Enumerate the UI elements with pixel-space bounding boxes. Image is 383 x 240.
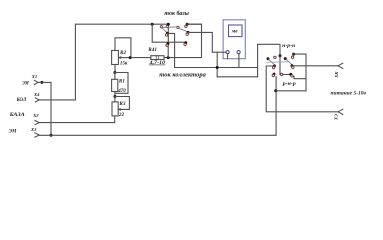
- wire lower run: [175, 67, 258, 69]
- wire X1 to riser: [38, 82, 51, 135]
- connector X4: [35, 98, 39, 102]
- contact B ring: [166, 25, 168, 27]
- node X1-rail junction: [50, 134, 53, 137]
- connector X1: [34, 80, 38, 84]
- svg-text:БАЗА: БАЗА: [8, 112, 25, 118]
- contact row2L dot: [166, 32, 169, 35]
- wire R1 top: [114, 73, 116, 80]
- npn ring2: [291, 56, 293, 58]
- contact A ring: [160, 26, 162, 28]
- npn ring1: [274, 56, 276, 58]
- switch arm C-E: [179, 28, 188, 31]
- wire main (R2 wiper to R41 to riser): [131, 57, 151, 59]
- node R1-R3 junction: [113, 95, 116, 98]
- npn pivot dot: [279, 54, 282, 57]
- R2 wiper wire: [119, 57, 131, 59]
- node top rail junction: [151, 23, 154, 26]
- pnp contact right ring: [292, 66, 294, 68]
- resistor R1: [112, 79, 118, 91]
- wire X4 to top rail: [39, 24, 75, 100]
- switch arm npn left: [268, 59, 275, 65]
- R2 wiper arrow: [119, 57, 121, 59]
- wire row2L to bottom wire: [167, 33, 174, 67]
- pnp contact left dot: [273, 65, 276, 68]
- wire tap riser: [216, 52, 218, 77]
- R3 wiper arrow: [118, 108, 120, 110]
- svg-text:н-р-н: н-р-н: [282, 43, 295, 49]
- pnp lower left ring: [272, 74, 274, 76]
- wire top rail: [75, 23, 168, 25]
- svg-text:Х4: Х4: [33, 92, 40, 97]
- contact G ring: [184, 43, 186, 45]
- contact row2L ring: [165, 34, 167, 36]
- svg-text:R2: R2: [120, 50, 126, 56]
- wire X2 to R3 bottom: [39, 116, 114, 123]
- switch link bar: [267, 61, 288, 63]
- pnp contact right dot: [291, 64, 294, 67]
- meter inner box: [229, 25, 243, 37]
- connector XK: [338, 63, 343, 68]
- wire pnp lower right branch: [294, 77, 306, 79]
- wire dot4 to down riser: [294, 54, 306, 91]
- svg-text:R3: R3: [119, 101, 125, 107]
- contact D dot: [186, 23, 189, 26]
- wire R1 bypass loop: [115, 73, 128, 94]
- node R2 wiper junction: [129, 56, 132, 59]
- connector X2: [35, 121, 39, 125]
- svg-text:R41: R41: [148, 47, 157, 53]
- svg-text:ХЭ: ХЭ: [333, 114, 338, 121]
- wire R3 top: [114, 97, 116, 102]
- wire meter left lead tick: [227, 54, 229, 59]
- pnp lower right dot: [289, 73, 292, 76]
- resistor R41: [151, 56, 164, 60]
- npn pivot vertical: [280, 56, 291, 75]
- npn contact dot4: [292, 53, 295, 56]
- switch arm B-C: [163, 26, 178, 29]
- node R41 right junction: [167, 56, 170, 59]
- connector XE: [338, 109, 343, 114]
- switch arm A-row2: [162, 28, 167, 34]
- wire emitter rail: [39, 77, 276, 136]
- wire R3 loop to wiper: [115, 97, 129, 110]
- svg-text:ЭМ: ЭМ: [22, 80, 29, 86]
- npn contact dot3: [284, 57, 287, 60]
- wire to contact G: [152, 24, 185, 43]
- meter terminal left: [226, 51, 229, 54]
- svg-text:R1: R1: [119, 79, 125, 85]
- wire lower jog: [217, 76, 257, 78]
- wire F riser: [167, 45, 169, 57]
- svg-text:КОЛ: КОЛ: [16, 97, 27, 103]
- contact C ring: [177, 26, 179, 28]
- svg-text:мв: мв: [231, 30, 238, 35]
- resistor R3: [112, 102, 118, 116]
- pnp lower right ring: [291, 75, 293, 77]
- svg-text:Х1: Х1: [31, 74, 37, 79]
- node X1 dot: [40, 81, 43, 84]
- R41 value underline: [149, 64, 165, 66]
- wire riser to npn switch: [258, 44, 280, 77]
- resistor R2: [112, 51, 119, 65]
- wire emitter to riser: [276, 90, 306, 92]
- switch SA1 contact B vertical: [167, 24, 169, 44]
- connector X3: [35, 133, 39, 137]
- contact E dot: [187, 31, 190, 34]
- contact B dot: [167, 23, 170, 26]
- svg-text:Х2: Х2: [32, 113, 39, 118]
- svg-text:ХК: ХК: [334, 71, 339, 79]
- wire pnp right to XK: [292, 65, 338, 67]
- svg-text:ток базы: ток базы: [164, 10, 189, 17]
- node emitter junction: [274, 89, 277, 92]
- svg-text:р-н-р: р-н-р: [282, 81, 297, 87]
- R41 inner marks: [156, 56, 158, 60]
- contact F ring: [166, 44, 168, 46]
- svg-text:15к: 15к: [120, 62, 128, 67]
- pnp lower left dot: [273, 73, 276, 76]
- wire R2 bottom: [114, 65, 116, 73]
- wire meter right lead: [238, 54, 240, 68]
- wire meter left tap: [212, 51, 226, 53]
- contact E ring: [186, 33, 188, 35]
- svg-text:22: 22: [118, 113, 125, 118]
- wire R2 top loop: [115, 38, 131, 58]
- contact G dot: [184, 41, 187, 44]
- svg-text:питание 5-10в: питание 5-10в: [331, 90, 367, 96]
- contact F dot: [166, 42, 169, 45]
- wire E to meter tap: [188, 32, 212, 52]
- node R2-R1 junction: [113, 71, 116, 74]
- pnp lower mid ring: [280, 73, 282, 75]
- npn contact dot1: [267, 57, 270, 60]
- svg-text:ток коллектора: ток коллектора: [159, 72, 206, 78]
- wire D to main: [187, 23, 201, 25]
- pnp contact left ring: [272, 66, 274, 68]
- contact D ring: [185, 25, 187, 27]
- wire R41 right: [164, 24, 202, 57]
- meter mV box: [223, 20, 245, 59]
- node lower wire junction: [216, 66, 219, 69]
- svg-text:Х3: Х3: [30, 127, 37, 132]
- svg-text:ЭМ: ЭМ: [9, 129, 17, 135]
- wire R1 bottom: [114, 92, 116, 97]
- wire pnp left to XE: [266, 66, 338, 112]
- switch arm npn right: [286, 59, 293, 65]
- meter terminal right: [237, 51, 240, 54]
